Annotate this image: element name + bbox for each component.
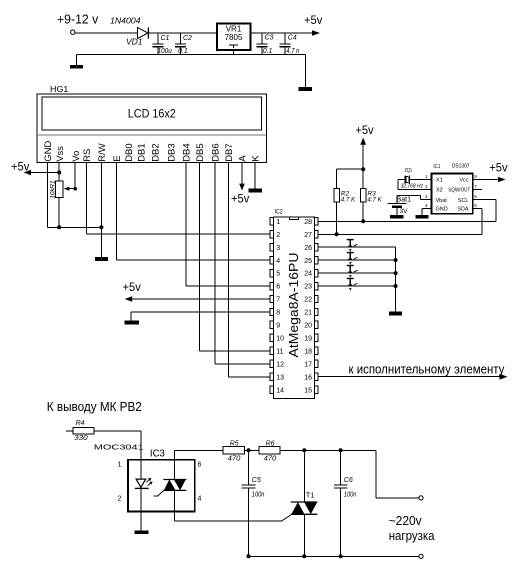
svg-text:14: 14 <box>276 387 284 394</box>
svg-text:X2: X2 <box>436 188 443 194</box>
svg-text:8: 8 <box>276 310 280 317</box>
svg-text:C1: C1 <box>161 35 170 42</box>
svg-text:17: 17 <box>304 361 312 368</box>
svg-text:R6: R6 <box>266 440 275 447</box>
svg-text:DB0: DB0 <box>124 143 135 161</box>
svg-text:9: 9 <box>276 323 280 330</box>
svg-text:13: 13 <box>276 374 284 381</box>
svg-text:DB3: DB3 <box>167 143 178 161</box>
svg-text:AtMega8A-16PU: AtMega8A-16PU <box>286 253 301 358</box>
svg-text:6: 6 <box>276 284 280 291</box>
svg-text:Vcc: Vcc <box>459 178 468 184</box>
svg-text:DB2: DB2 <box>151 143 162 161</box>
svg-text:C4: C4 <box>288 35 297 42</box>
svg-text:SDA: SDA <box>457 207 469 213</box>
svg-text:23: 23 <box>304 284 312 291</box>
svg-text:10: 10 <box>276 335 284 342</box>
svg-text:R4: R4 <box>76 420 85 427</box>
svg-text:K: K <box>251 155 262 162</box>
svg-text:IC1: IC1 <box>433 164 440 170</box>
svg-text:ZQ1: ZQ1 <box>405 168 413 174</box>
svg-text:DB6: DB6 <box>211 143 222 161</box>
svg-text:DS1307: DS1307 <box>452 164 470 170</box>
svg-text:1: 1 <box>118 462 122 469</box>
svg-text:К выводу МК РВ2: К выводу МК РВ2 <box>47 400 142 414</box>
svg-text:C5: C5 <box>252 477 261 484</box>
svg-text:GND: GND <box>43 141 54 162</box>
svg-text:0.1: 0.1 <box>263 48 273 55</box>
svg-text:28: 28 <box>304 219 312 226</box>
svg-text:470: 470 <box>264 453 278 462</box>
svg-text:к исполнительному элементу: к исполнительному элементу <box>349 363 506 377</box>
svg-text:5: 5 <box>276 271 280 278</box>
svg-text:16: 16 <box>304 374 312 381</box>
svg-text:+5v: +5v <box>355 123 373 137</box>
svg-text:DB5: DB5 <box>195 143 206 161</box>
svg-text:HG1: HG1 <box>50 85 69 94</box>
svg-text:4.7 K: 4.7 K <box>341 196 356 203</box>
svg-text:нагрузка: нагрузка <box>389 528 435 543</box>
svg-text:X1: X1 <box>436 178 443 184</box>
svg-text:LCD 16x2: LCD 16x2 <box>128 107 176 121</box>
svg-text:24: 24 <box>304 271 312 278</box>
svg-text:Vss: Vss <box>55 146 66 162</box>
svg-text:100u: 100u <box>158 48 172 55</box>
svg-text:+5v: +5v <box>489 161 507 175</box>
svg-text:+5v: +5v <box>231 192 249 206</box>
svg-text:IC2: IC2 <box>275 210 284 216</box>
svg-text:1: 1 <box>276 219 280 226</box>
svg-text:32,768 Hz: 32,768 Hz <box>401 184 424 190</box>
svg-text:A: A <box>238 155 249 162</box>
svg-text:22: 22 <box>304 297 312 304</box>
svg-text:DB7: DB7 <box>224 143 235 161</box>
svg-text:SCL: SCL <box>458 198 469 204</box>
svg-text:18: 18 <box>304 348 312 355</box>
svg-text:T1: T1 <box>306 491 315 500</box>
svg-text:+5v: +5v <box>11 160 29 174</box>
svg-text:4: 4 <box>198 496 202 503</box>
svg-text:+9-12 v: +9-12 v <box>57 12 99 27</box>
svg-text:~220v: ~220v <box>389 513 422 528</box>
svg-text:C6: C6 <box>344 477 353 484</box>
svg-text:Bat1: Bat1 <box>397 196 412 203</box>
svg-text:7805: 7805 <box>225 33 243 42</box>
svg-text:R5: R5 <box>230 440 239 447</box>
svg-text:0.1: 0.1 <box>178 48 188 55</box>
svg-text:4.7 n: 4.7 n <box>286 48 299 55</box>
svg-text:DB1: DB1 <box>137 143 148 161</box>
svg-text:+5v: +5v <box>304 13 322 27</box>
svg-text:RS: RS <box>82 149 93 162</box>
svg-text:330: 330 <box>74 433 88 442</box>
svg-text:26: 26 <box>304 245 312 252</box>
svg-text:19: 19 <box>304 335 312 342</box>
svg-text:21: 21 <box>304 310 312 317</box>
svg-text:R/W: R/W <box>97 143 108 162</box>
svg-text:25: 25 <box>304 258 312 265</box>
svg-text:+5v: +5v <box>123 280 141 294</box>
svg-text:100n: 100n <box>252 492 265 499</box>
svg-text:DB4: DB4 <box>182 143 193 161</box>
svg-text:15: 15 <box>304 387 312 394</box>
svg-text:12: 12 <box>276 361 284 368</box>
svg-text:27: 27 <box>304 232 312 239</box>
svg-text:3: 3 <box>276 245 280 252</box>
svg-text:11: 11 <box>276 348 283 355</box>
svg-text:6: 6 <box>198 462 202 469</box>
svg-text:4: 4 <box>276 258 280 265</box>
svg-text:E: E <box>112 155 123 161</box>
svg-text:VD1: VD1 <box>126 37 143 47</box>
svg-text:7: 7 <box>276 297 280 304</box>
svg-text:IC3: IC3 <box>150 448 165 459</box>
svg-text:GND: GND <box>436 207 448 213</box>
svg-text:C3: C3 <box>265 35 274 42</box>
svg-text:2: 2 <box>118 496 122 503</box>
svg-text:Vo: Vo <box>71 151 82 162</box>
svg-text:2: 2 <box>276 232 280 239</box>
svg-text:470: 470 <box>228 453 242 462</box>
svg-text:1N4004: 1N4004 <box>110 16 141 26</box>
svg-text:3V: 3V <box>400 208 409 215</box>
svg-text:C2: C2 <box>183 35 192 42</box>
svg-text:100n: 100n <box>344 492 357 499</box>
svg-text:SQW/OUT: SQW/OUT <box>448 188 470 194</box>
svg-text:20: 20 <box>304 323 312 330</box>
svg-text:4.7 K: 4.7 K <box>367 196 382 203</box>
svg-text:Vbat: Vbat <box>436 198 448 204</box>
svg-text:R1: R1 <box>50 180 57 189</box>
svg-text:10k: 10k <box>50 188 57 199</box>
svg-text:MOC3041: MOC3041 <box>94 443 144 452</box>
